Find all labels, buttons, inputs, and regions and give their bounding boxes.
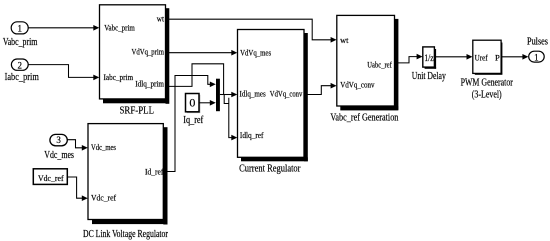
svg-text:Vdc_mes: Vdc_mes (91, 143, 116, 152)
svg-text:VdVq_prim: VdVq_prim (132, 47, 165, 56)
constant block 0 (Iq_ref) (183, 94, 204, 127)
wire port2 to SRF-PLL Iabc_prim (28, 65, 99, 81)
input port 2 (5, 59, 39, 83)
svg-text:Idlq_mes: Idlq_mes (240, 90, 266, 99)
wire mux output to Current Regulator Idlq_mes (220, 92, 237, 98)
svg-text:1: 1 (534, 53, 539, 63)
wire wt: SRF-PLL to Vabc_ref Generation (166, 19, 337, 42)
block Vabc_ref Generation (330, 15, 398, 123)
wire VdVq_prim to Current Regulator VdVq_mes (166, 50, 238, 56)
svg-text:Vdc_ref: Vdc_ref (38, 173, 64, 183)
svg-text:1/z: 1/z (424, 53, 433, 63)
svg-text:Iabc_prim: Iabc_prim (104, 73, 134, 82)
wire Id_ref: DC link regulator to mux input 1 (164, 76, 216, 172)
wire Uabc_ref to Unit Delay (395, 54, 423, 63)
wire VdVq_conv: Current Regulator to Vabc_ref Generation (304, 83, 336, 95)
svg-text:PWM Generator: PWM Generator (461, 77, 514, 88)
wire 0 to mux input 2 (199, 100, 216, 106)
wire Vdc_ref block to DC link regulator (67, 177, 88, 201)
input port 3 (44, 134, 74, 161)
svg-text:Iq_ref: Iq_ref (183, 115, 204, 126)
wire port3 to DC link regulator Vdc_mes (67, 140, 88, 151)
input port 1 (3, 22, 38, 48)
block PWM Generator (3-Level) (461, 40, 514, 100)
svg-text:wt: wt (340, 36, 349, 45)
block Current Regulator (238, 30, 308, 175)
svg-text:3: 3 (56, 135, 61, 145)
block DC Link Voltage Regulator (83, 124, 168, 240)
mux (216, 79, 220, 112)
svg-text:VdVq_mes: VdVq_mes (240, 48, 271, 57)
svg-text:Vabc_prim: Vabc_prim (104, 24, 135, 33)
svg-text:Id_ref: Id_ref (145, 168, 164, 177)
svg-text:Vabc_ref Generation: Vabc_ref Generation (330, 112, 398, 123)
wire Idlq_prim to Current Regulator Idlq_ref (with hop over mux output) (166, 64, 238, 141)
svg-text:2: 2 (18, 61, 23, 71)
constant block Vdc_ref (33, 169, 67, 185)
svg-text:Idlq_ref: Idlq_ref (240, 131, 264, 140)
svg-text:Vdc_mes: Vdc_mes (44, 150, 74, 161)
svg-text:SRF-PLL: SRF-PLL (120, 106, 155, 117)
svg-text:VdVq_conv: VdVq_conv (340, 81, 375, 90)
svg-text:Unit Delay: Unit Delay (412, 71, 446, 82)
svg-text:DC Link Voltage Regulator: DC Link Voltage Regulator (83, 229, 168, 240)
svg-text:P: P (495, 53, 500, 62)
wire Unit Delay to PWM Generator (436, 54, 473, 60)
svg-text:Current Regulator: Current Regulator (239, 164, 301, 175)
svg-text:Uref: Uref (475, 53, 488, 62)
wire port1 to SRF-PLL Vabc_prim (28, 25, 99, 31)
block Unit Delay (412, 47, 446, 82)
block SRF-PLL (100, 5, 170, 117)
svg-text:Uabc_ref: Uabc_ref (367, 60, 392, 69)
svg-text:VdVq_conv: VdVq_conv (270, 90, 303, 99)
svg-text:1: 1 (17, 24, 22, 34)
wire PWM Generator to output port (501, 54, 528, 60)
output port 1 (Pulses) (527, 37, 548, 63)
svg-text:Vdc_ref: Vdc_ref (91, 194, 116, 203)
svg-text:wt: wt (157, 15, 165, 24)
svg-text:Pulses: Pulses (527, 37, 548, 48)
svg-text:Iabc_prim: Iabc_prim (5, 72, 39, 83)
svg-text:(3-Level): (3-Level) (472, 90, 502, 101)
svg-text:Idlq_prim: Idlq_prim (135, 79, 164, 88)
svg-text:0: 0 (189, 96, 195, 110)
svg-text:Vabc_prim: Vabc_prim (3, 37, 38, 48)
